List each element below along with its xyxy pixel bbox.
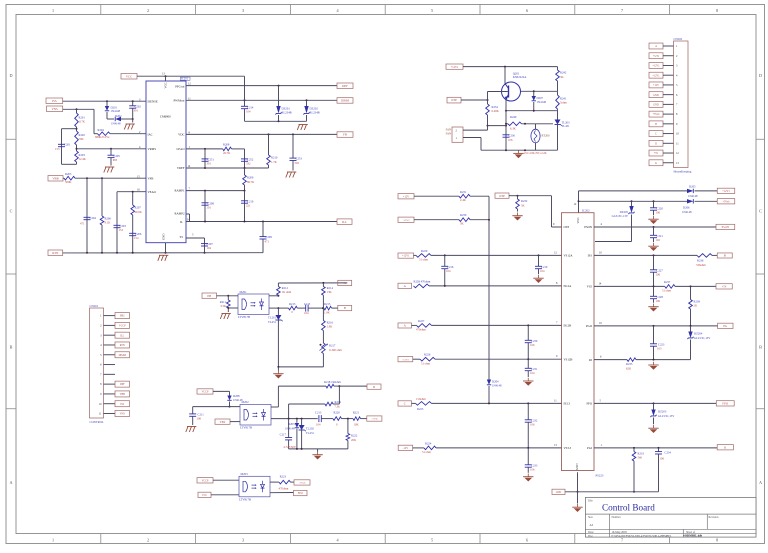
svg-text:5ohm: 5ohm [560, 101, 567, 105]
svg-text:R204: R204 [98, 128, 105, 132]
svg-text:6: 6 [526, 8, 528, 13]
svg-text:RTN: RTN [120, 344, 125, 347]
svg-text:Revision: Revision [709, 516, 720, 519]
svg-text:R220: R220 [334, 410, 341, 414]
svg-text:R231: R231 [460, 190, 467, 194]
svg-text:OTP: OTP [499, 194, 505, 198]
svg-text:FAN: FAN [446, 129, 451, 132]
svg-text:C217: C217 [280, 432, 287, 436]
svg-text:LTV817B: LTV817B [240, 426, 252, 430]
svg-text:336ohm: 336ohm [696, 263, 706, 267]
svg-text:ISS: ISS [588, 254, 593, 258]
svg-text:FPO: FPO [722, 401, 728, 405]
svg-text:M202: M202 [242, 400, 250, 404]
svg-text:+5V: +5V [722, 285, 727, 288]
svg-text:1.7K: 1.7K [271, 160, 278, 164]
svg-text:332: 332 [246, 162, 251, 166]
svg-text:VBB: VBB [52, 176, 58, 180]
svg-text:FAN: FAN [446, 132, 451, 135]
svg-text:R217: R217 [329, 343, 336, 347]
svg-text:153: 153 [119, 228, 124, 232]
svg-text:PGO: PGO [586, 324, 593, 328]
svg-text:A: A [759, 480, 762, 485]
svg-text:RI: RI [589, 358, 592, 362]
svg-text:IAC: IAC [148, 133, 153, 137]
svg-text:PFCout: PFCout [175, 85, 184, 89]
svg-text:104: 104 [316, 422, 321, 426]
svg-text:VCCP: VCCP [202, 391, 209, 394]
svg-text:1N4148: 1N4148 [537, 100, 547, 104]
svg-text:D202: D202 [115, 114, 122, 118]
svg-text:IS3.3: IS3.3 [564, 402, 571, 406]
svg-text:K: K [655, 162, 657, 165]
svg-text:104: 104 [446, 269, 451, 273]
svg-text:HouseKeeping: HouseKeeping [674, 169, 692, 173]
svg-text:ISS: ISS [52, 99, 57, 103]
svg-text:VNS: VNS [120, 413, 126, 416]
svg-text:FB: FB [343, 133, 347, 137]
svg-text:RL234B: RL234B [310, 110, 320, 114]
svg-text:476: 476 [508, 138, 513, 142]
svg-text:Sheet of: Sheet of [686, 531, 695, 534]
svg-text:C213: C213 [315, 410, 322, 414]
svg-text:VCCP: VCCP [202, 479, 209, 482]
svg-text:ISS: ISS [120, 403, 124, 406]
svg-text:106: 106 [197, 417, 202, 421]
svg-text:M201: M201 [240, 290, 248, 294]
svg-text:B: B [10, 344, 13, 349]
svg-text:IS12B: IS12B [564, 324, 572, 328]
svg-text:106: 106 [656, 273, 661, 277]
svg-text:TL431: TL431 [306, 431, 315, 435]
svg-text:+5V: +5V [654, 152, 659, 155]
svg-text:GND: GND [575, 463, 579, 470]
svg-text:3: 3 [242, 8, 244, 13]
svg-text:470ohm: 470ohm [279, 486, 289, 490]
svg-text:TL202: TL202 [306, 426, 315, 430]
svg-text:154: 154 [134, 236, 139, 240]
svg-text:R209: R209 [247, 176, 254, 180]
svg-text:9.1K: 9.1K [105, 221, 112, 225]
svg-text:LTV817B: LTV817B [239, 498, 251, 502]
svg-text:0-300 ohm: 0-300 ohm [329, 348, 343, 352]
svg-text:DIMM: DIMM [119, 354, 127, 357]
svg-text:7.3k: 7.3k [335, 404, 341, 408]
svg-text:104: 104 [207, 246, 212, 250]
svg-text:LEAO: LEAO [177, 147, 186, 151]
svg-text:DIMM: DIMM [341, 100, 349, 103]
svg-text:471: 471 [265, 239, 270, 243]
svg-text:B-HHMBEL.ddb: B-HHMBEL.ddb [683, 535, 703, 538]
svg-text:M203: M203 [241, 472, 249, 476]
svg-text:VNS: VNS [51, 107, 57, 111]
svg-text:R228 470ohm: R228 470ohm [414, 279, 431, 283]
svg-text:VCCP: VCCP [119, 324, 126, 327]
svg-text:51 ohm: 51 ohm [419, 258, 429, 262]
svg-text:8: 8 [716, 538, 718, 543]
svg-text:TL431: TL431 [562, 124, 571, 128]
svg-text:C: C [655, 133, 657, 136]
svg-text:B: B [759, 344, 762, 349]
svg-text:500K: 500K [65, 180, 72, 184]
svg-text:TL431: TL431 [268, 320, 277, 324]
svg-text:R229: R229 [421, 249, 428, 253]
svg-text:R230: R230 [460, 213, 467, 217]
svg-text:Size: Size [588, 516, 594, 519]
svg-text:B: B [655, 123, 657, 126]
svg-text:+12V2: +12V2 [402, 358, 410, 361]
svg-text:KSP2222A: KSP2222A [513, 75, 528, 79]
svg-text:391: 391 [134, 109, 139, 113]
svg-text:IC202: IC202 [582, 208, 590, 212]
svg-text:CN202: CN202 [674, 37, 683, 41]
svg-text:2.4K: 2.4K [460, 198, 467, 202]
svg-text:A: A [655, 45, 657, 48]
svg-text:OTP: OTP [564, 225, 570, 229]
svg-text:16-May-2005: 16-May-2005 [612, 531, 628, 534]
svg-text:C204: C204 [90, 216, 97, 220]
svg-text:LTV817B: LTV817B [238, 315, 250, 319]
svg-text:+12V: +12V [403, 195, 409, 198]
svg-text:+12V: +12V [653, 84, 659, 87]
svg-text:502: 502 [295, 161, 300, 165]
svg-text:471: 471 [80, 221, 85, 225]
svg-text:DPF: DPF [342, 84, 348, 88]
svg-text:+12V1: +12V1 [451, 66, 459, 69]
svg-text:70K: 70K [79, 137, 85, 141]
svg-text:R205: R205 [65, 172, 72, 176]
svg-text:5: 5 [431, 538, 433, 543]
svg-text:1K ohm: 1K ohm [282, 290, 292, 294]
svg-text:PB2: PB2 [120, 315, 125, 318]
svg-text:RT200: RT200 [542, 134, 551, 138]
svg-text:+12V2: +12V2 [403, 219, 411, 222]
svg-text:106: 106 [656, 211, 661, 215]
svg-text:1: 1 [52, 8, 54, 13]
svg-text:PGI: PGI [587, 446, 592, 450]
svg-text:RAMP2: RAMP2 [174, 212, 185, 216]
svg-text:D: D [9, 73, 12, 78]
svg-text:DZ203: DZ203 [658, 409, 667, 413]
svg-text:File:: File: [588, 535, 593, 538]
svg-text:+5Vsb: +5Vsb [299, 482, 306, 485]
svg-text:R223: R223 [280, 474, 287, 478]
svg-text:1: 1 [52, 538, 54, 543]
svg-text:103: 103 [657, 347, 662, 351]
svg-text:DZ204: DZ204 [694, 331, 703, 335]
svg-text:2: 2 [147, 8, 149, 13]
svg-text:D205: D205 [689, 185, 696, 189]
svg-text:IC201: IC201 [181, 78, 189, 81]
svg-text:+12V1: +12V1 [402, 255, 410, 258]
svg-text:104: 104 [530, 371, 535, 375]
svg-text:PS-ON: PS-ON [722, 226, 730, 229]
svg-text:R215: R215 [324, 302, 331, 306]
svg-text:+5Vsb: +5Vsb [653, 113, 661, 116]
svg-text:PS223: PS223 [596, 474, 604, 478]
svg-text:106: 106 [660, 456, 665, 460]
svg-text:1N4148: 1N4148 [682, 210, 692, 214]
svg-text:SS: SS [180, 235, 184, 239]
svg-text:VDC: VDC [178, 133, 184, 137]
svg-text:GND: GND [653, 103, 659, 106]
svg-text:1N4148: 1N4148 [111, 122, 121, 126]
svg-text:+12V1: +12V1 [722, 190, 730, 193]
svg-text:VS5: VS5 [587, 285, 593, 289]
svg-text:683: 683 [113, 158, 118, 162]
svg-text:12.4K: 12.4K [79, 157, 87, 161]
svg-text:680K/0.25w: 680K/0.25w [95, 135, 110, 139]
svg-text:6.3K: 6.3K [510, 127, 517, 131]
svg-text:7: 7 [621, 8, 623, 13]
svg-text:+3.3V: +3.3V [653, 55, 660, 58]
svg-text:221: 221 [246, 204, 251, 208]
svg-text:R240: R240 [510, 115, 517, 119]
svg-text:VCC: VCC [202, 494, 208, 497]
svg-text:R224: R224 [425, 441, 432, 445]
svg-text:R213: R213 [289, 302, 296, 306]
svg-text:D206: D206 [683, 205, 690, 209]
svg-text:CN201: CN201 [90, 304, 99, 308]
svg-text:1N4148: 1N4148 [111, 109, 121, 113]
svg-text:6: 6 [526, 538, 528, 543]
svg-text:1N4148: 1N4148 [688, 194, 698, 198]
svg-text:391: 391 [207, 162, 212, 166]
svg-text:51 ohm: 51 ohm [421, 361, 431, 365]
svg-text:R222: R222 [351, 433, 358, 437]
svg-text:102: 102 [656, 238, 661, 242]
svg-text:A: A [9, 480, 12, 485]
svg-text:Date:: Date: [588, 531, 594, 534]
svg-text:Control Board: Control Board [602, 503, 655, 513]
svg-text:B: B [724, 254, 726, 258]
svg-text:OTP: OTP [451, 98, 457, 102]
svg-text:62K: 62K [626, 366, 632, 370]
svg-text:25C=10K,70C=2.2K: 25C=10K,70C=2.2K [524, 152, 547, 155]
svg-text:117K: 117K [79, 119, 86, 123]
svg-text:Number: Number [612, 516, 621, 519]
svg-text:VS12A: VS12A [564, 254, 574, 258]
svg-text:C201: C201 [64, 143, 71, 147]
svg-text:101: 101 [207, 206, 212, 210]
svg-text:470ohm: 470ohm [416, 328, 426, 332]
svg-text:+5Vsb: +5Vsb [723, 200, 731, 203]
svg-text:51 ohm: 51 ohm [662, 289, 672, 293]
svg-text:PB: PB [207, 294, 211, 298]
svg-text:B: B [344, 306, 346, 310]
svg-text:4.7uF/50V: 4.7uF/50V [283, 445, 297, 449]
svg-text:104: 104 [246, 109, 251, 113]
svg-text:R227: R227 [418, 319, 425, 323]
svg-text:GND: GND [556, 491, 562, 494]
svg-text:RAMP1: RAMP1 [174, 189, 185, 193]
svg-text:106: 106 [656, 299, 661, 303]
svg-text:VEAO: VEAO [148, 190, 157, 194]
svg-text:3: 3 [242, 538, 244, 543]
svg-text:1.9K: 1.9K [324, 310, 331, 314]
svg-text:PWMout: PWMout [173, 98, 184, 102]
svg-text:RL234B: RL234B [282, 110, 292, 114]
svg-text:86.7K: 86.7K [247, 180, 255, 184]
svg-text:1N4148: 1N4148 [285, 426, 295, 430]
svg-text:VBB: VBB [120, 393, 126, 396]
svg-text:106: 106 [530, 423, 535, 427]
svg-text:VS3.3: VS3.3 [564, 446, 572, 450]
svg-text:-12V: -12V [403, 447, 409, 450]
svg-text:51 ohm: 51 ohm [422, 450, 432, 454]
svg-text:C: C [404, 402, 406, 406]
svg-text:C: C [10, 209, 13, 214]
svg-text:R236: R236 [697, 258, 704, 262]
svg-text:1N4148: 1N4148 [492, 383, 502, 387]
svg-text:D: D [655, 142, 657, 145]
svg-text:6.49K: 6.49K [492, 109, 500, 113]
svg-text:R208: R208 [223, 143, 230, 147]
svg-text:2: 2 [147, 538, 149, 543]
svg-text:90.0K: 90.0K [135, 210, 143, 214]
svg-text:E:\SP5A2D5\FSP250-50PLA\FSP250: E:\SP5A2D5\FSP250-50PLA\FSP250-50PLA-HHM… [612, 535, 672, 538]
svg-text:IS12A: IS12A [564, 284, 573, 288]
svg-text:VRMS: VRMS [148, 147, 157, 151]
svg-text:106: 106 [530, 343, 535, 347]
svg-text:104: 104 [540, 269, 545, 273]
svg-text:560: 560 [638, 456, 643, 460]
svg-text:104: 104 [304, 311, 309, 315]
svg-text:20K: 20K [351, 438, 357, 442]
svg-text:CONTROL: CONTROL [90, 420, 104, 424]
svg-text:TL201: TL201 [268, 315, 277, 319]
svg-text:IL: IL [180, 220, 183, 224]
svg-text:7: 7 [621, 538, 623, 543]
svg-text:ISENSE: ISENSE [148, 99, 158, 103]
svg-text:150ohm: 150ohm [416, 397, 426, 401]
svg-text:A3: A3 [590, 523, 594, 527]
svg-text:DPF: DPF [120, 383, 125, 386]
svg-text:106: 106 [530, 468, 535, 472]
svg-text:ILL: ILL [342, 220, 347, 224]
svg-text:8: 8 [716, 8, 718, 13]
svg-text:R225: R225 [417, 407, 424, 411]
svg-text:R218 190ohm: R218 190ohm [324, 380, 341, 384]
svg-text:GND: GND [162, 233, 166, 240]
svg-text:VFB: VFB [148, 176, 154, 180]
svg-text:5: 5 [431, 8, 433, 13]
svg-text:C: C [759, 209, 762, 214]
svg-text:D: D [759, 73, 762, 78]
svg-text:ILL: ILL [120, 334, 124, 337]
svg-text:VCC: VCC [576, 217, 580, 223]
svg-text:+12V1: +12V1 [652, 74, 660, 77]
svg-text:FPO: FPO [298, 492, 303, 495]
svg-text:TB2: TB2 [220, 420, 226, 424]
svg-text:R219: R219 [335, 400, 342, 404]
svg-text:C234: C234 [665, 450, 672, 454]
svg-text:VREF: VREF [177, 166, 185, 170]
svg-text:R221: R221 [353, 410, 360, 414]
svg-text:PSON: PSON [584, 225, 593, 229]
svg-text:CM6800: CM6800 [160, 115, 171, 119]
svg-text:153: 153 [55, 147, 60, 151]
svg-text:FPO: FPO [586, 402, 592, 406]
svg-text:3.3K: 3.3K [220, 304, 227, 308]
svg-text:R237: R237 [664, 280, 671, 284]
svg-text:VCC: VCC [126, 74, 132, 78]
svg-text:1.9K: 1.9K [327, 325, 334, 329]
svg-text:+12V1: +12V1 [652, 65, 660, 68]
svg-text:RTN: RTN [52, 251, 59, 255]
svg-text:Title: Title [588, 499, 594, 502]
svg-text:R235: R235 [626, 362, 633, 366]
svg-text:26.7K: 26.7K [223, 151, 231, 155]
svg-text:13K: 13K [327, 290, 333, 294]
svg-text:VS12B: VS12B [564, 357, 573, 361]
svg-text:10K: 10K [354, 422, 360, 426]
svg-text:C215: C215 [304, 302, 311, 306]
svg-text:+5Vsb: +5Vsb [371, 418, 378, 421]
svg-text:GND: GND [653, 94, 659, 97]
svg-text:VCC: VCC [164, 82, 168, 88]
svg-text:R226: R226 [424, 353, 431, 357]
